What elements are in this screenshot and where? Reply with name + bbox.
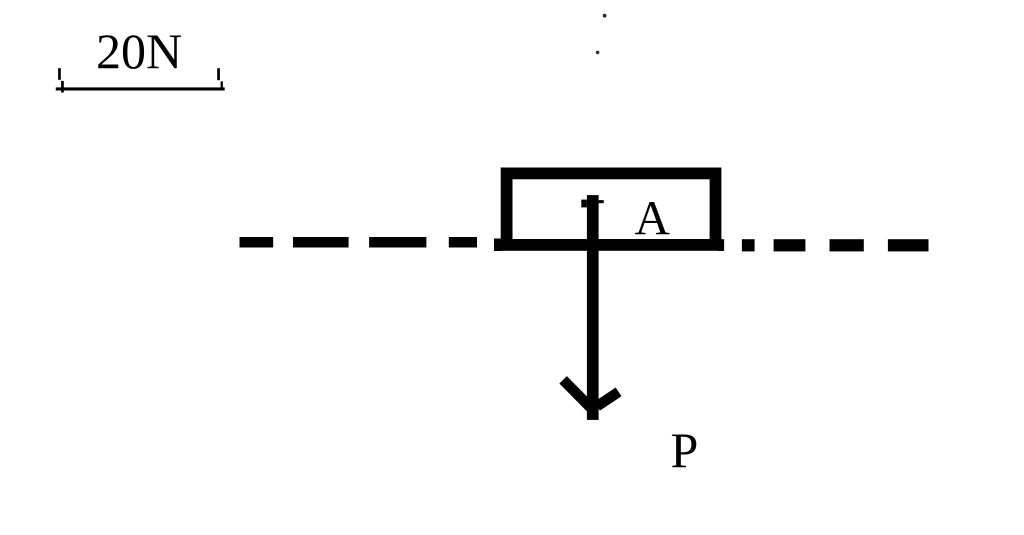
dashed waterline: dash 2 [293, 237, 349, 248]
dot 1 [603, 14, 607, 18]
dashed waterline: dash 7 [888, 239, 929, 251]
force arrow P: head right barb [597, 392, 619, 406]
dashed waterline: dash 3 [369, 237, 426, 248]
dashed waterline: dash 4 [449, 237, 477, 248]
dashed waterline: dash 5 [774, 239, 806, 251]
dot 2 [596, 51, 600, 55]
svg-text:P: P [671, 422, 699, 478]
svg-text:A: A [635, 190, 671, 245]
scale bar right tick [217, 68, 223, 89]
scale bar left tick [58, 68, 64, 92]
dashed waterline: stub at block left corner [494, 239, 502, 252]
force arrow P: shaft [587, 195, 599, 420]
dashed waterline: dash 1 [240, 237, 274, 248]
svg-text:20N: 20N [96, 23, 182, 79]
dashed waterline: square dot right of block [742, 239, 755, 251]
force arrow P: head left barb [563, 380, 592, 409]
scale bar [56, 87, 225, 90]
force arrow P: tail tick [581, 200, 603, 208]
block A outline [507, 173, 716, 245]
block A bottom-right border overhang [718, 239, 724, 251]
dashed waterline: dash 6 [830, 239, 864, 251]
